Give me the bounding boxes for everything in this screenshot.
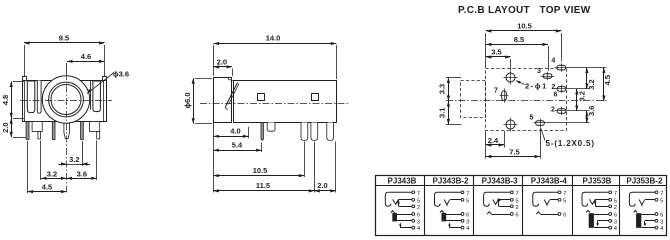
- side pin B: [311, 123, 318, 141]
- svg-text:2: 2: [614, 205, 617, 211]
- extension lines front bottom: [28, 141, 97, 194]
- dimension 4.6: [67, 52, 105, 74]
- svg-text:10.5: 10.5: [517, 22, 532, 31]
- dimension 8.5: [486, 35, 549, 71]
- side pin C: [327, 123, 334, 141]
- side front pin: [261, 123, 263, 141]
- svg-text:2: 2: [551, 107, 555, 114]
- pad 4: [555, 63, 568, 72]
- svg-text:9.5: 9.5: [59, 34, 69, 43]
- front pin 3: [52, 122, 55, 140]
- table frame: [376, 176, 667, 236]
- svg-text:7: 7: [466, 191, 469, 197]
- extension lines side bottom: [214, 123, 336, 193]
- svg-text:5.4: 5.4: [232, 141, 243, 150]
- svg-text:3.2: 3.2: [69, 155, 79, 164]
- svg-text:2.0: 2.0: [217, 58, 227, 67]
- hole phi1 top: [504, 71, 518, 85]
- schematic PJ343B-4: [533, 191, 567, 219]
- dimension 2.0 left: [1, 118, 26, 137]
- svg-text:PJ343B: PJ343B: [388, 177, 417, 186]
- svg-text:3.2: 3.2: [577, 91, 586, 101]
- svg-text:4.5: 4.5: [42, 183, 52, 192]
- svg-text:3: 3: [537, 68, 541, 75]
- svg-text:PJ343B-3: PJ343B-3: [482, 177, 519, 186]
- dimension 10.5 side: [213, 166, 304, 177]
- dimension 2.4: [486, 136, 504, 147]
- svg-text:3.6: 3.6: [587, 106, 596, 116]
- svg-text:P.C.B LAYOUT: P.C.B LAYOUT: [458, 5, 530, 16]
- pad 3: [541, 72, 554, 81]
- dimension 4.5 pcb: [602, 68, 612, 101]
- svg-text:ϕ6.0: ϕ6.0: [183, 92, 192, 108]
- front view left slot: [27, 81, 35, 113]
- dimension 4.0: [213, 127, 248, 138]
- dimension 3.2 / 3.6 row: [41, 170, 97, 180]
- dimension 4.8: [1, 82, 24, 119]
- side view flange: [214, 78, 234, 123]
- schematic PJ343B: [385, 191, 421, 232]
- svg-text:2.4: 2.4: [488, 136, 499, 145]
- side view main body: [234, 81, 337, 123]
- pcb bottom extension lines: [486, 129, 541, 159]
- front view barrel circles: [42, 76, 89, 123]
- schematic PJ353B-2: [629, 191, 664, 232]
- svg-text:PJ353B-2: PJ353B-2: [626, 177, 663, 186]
- front view top-right tab: [103, 77, 107, 81]
- schematic PJ343B-3: [484, 191, 520, 219]
- svg-text:7: 7: [494, 88, 498, 95]
- pcb centerline: [446, 100, 608, 102]
- svg-text:8.5: 8.5: [514, 35, 524, 44]
- svg-text:11.5: 11.5: [256, 181, 270, 190]
- front view right slot: [93, 81, 101, 112]
- svg-text:2: 2: [515, 205, 518, 211]
- svg-text:3.2: 3.2: [47, 170, 57, 179]
- pad 2: [555, 107, 568, 116]
- pad 6: [555, 85, 568, 94]
- mold mark square 2: [312, 94, 319, 101]
- front view right channel line: [90, 81, 92, 110]
- label 2-phi1 with leader: [515, 79, 548, 90]
- side view centerline: [200, 103, 348, 105]
- svg-text:7: 7: [660, 191, 663, 197]
- svg-text:7.5: 7.5: [509, 148, 519, 157]
- schematic PJ353B: [582, 191, 618, 232]
- svg-text:5-(1.2X0.5): 5-(1.2X0.5): [546, 139, 595, 148]
- svg-text:7: 7: [417, 191, 420, 197]
- dimension 10.5 pcb: [486, 22, 562, 68]
- svg-text:14.0: 14.0: [266, 34, 281, 43]
- front view vertical centerline: [66, 73, 68, 193]
- pcb outline dashed rect: [486, 69, 567, 131]
- svg-text:2: 2: [551, 84, 555, 91]
- front pin 2 shoulder: [32, 122, 42, 139]
- svg-text:3.1: 3.1: [438, 108, 447, 118]
- hole phi1 bottom: [504, 118, 518, 132]
- dimension 3.2 top row: [59, 155, 91, 166]
- side pin A: [301, 123, 308, 141]
- svg-text:6: 6: [554, 91, 558, 98]
- svg-text:3.3: 3.3: [438, 84, 447, 94]
- svg-text:7: 7: [614, 191, 617, 197]
- svg-text:2.0: 2.0: [317, 181, 327, 190]
- front pin 6 shoulder: [89, 122, 99, 139]
- front view top-left tab: [23, 77, 27, 81]
- table headers: [388, 177, 663, 186]
- side short pin: [267, 123, 275, 132]
- svg-text:TOP VIEW: TOP VIEW: [540, 5, 591, 16]
- dimension 2.0 right: [314, 181, 335, 193]
- label 5-(1.2X0.5) with leader: [541, 128, 595, 149]
- contact spring: [226, 83, 239, 110]
- svg-text:4.8: 4.8: [1, 95, 10, 105]
- front pin 1 (leftmost): [26, 122, 29, 140]
- pad labels: [494, 58, 558, 122]
- svg-text:7: 7: [563, 191, 566, 197]
- front view horizontal centerline: [20, 100, 112, 102]
- right extension lines pcb: [547, 68, 607, 123]
- dimension phi 6.0: [183, 78, 212, 123]
- svg-text:4.6: 4.6: [81, 52, 91, 61]
- dimension 3.1: [438, 101, 451, 125]
- label phi 3.6 with leader: [85, 70, 129, 96]
- svg-text:5: 5: [530, 115, 534, 122]
- svg-text:3.2: 3.2: [587, 79, 596, 89]
- pad 5: [533, 119, 546, 128]
- dimension 3.5: [486, 48, 511, 70]
- dimension 3.2 inner: [575, 89, 586, 111]
- front view body: [23, 81, 107, 122]
- svg-text:3.5: 3.5: [491, 48, 501, 57]
- dimension 4.5: [28, 183, 67, 194]
- dimension 3.6 pcb: [585, 106, 596, 123]
- svg-text:4.0: 4.0: [230, 127, 240, 136]
- schematic PJ343B-2: [435, 191, 471, 232]
- svg-text:4.5: 4.5: [603, 75, 612, 85]
- dimension 7.5: [486, 148, 540, 158]
- svg-text:2.0: 2.0: [1, 122, 10, 132]
- svg-text:3.6: 3.6: [77, 170, 87, 179]
- mold mark square 1: [258, 94, 265, 101]
- svg-text:7: 7: [515, 191, 518, 197]
- dimension 2.0 flange: [214, 58, 233, 77]
- svg-text:10.5: 10.5: [253, 166, 268, 175]
- svg-text:PJ343B-2: PJ343B-2: [432, 177, 469, 186]
- dimension 11.5: [213, 181, 314, 193]
- svg-text:2-ϕ1: 2-ϕ1: [525, 82, 548, 91]
- front pin 5: [81, 122, 84, 140]
- front center pin: [64, 120, 70, 139]
- dimension 14.0: [214, 34, 337, 80]
- svg-text:4: 4: [551, 58, 555, 65]
- dimension 9.5: [24, 34, 105, 78]
- pcb left protrusion dashed: [461, 81, 486, 118]
- pad 7: [500, 89, 509, 103]
- dimension 3.2 outer: [585, 68, 596, 90]
- svg-text:ϕ3.6: ϕ3.6: [113, 70, 129, 79]
- svg-text:PJ353B: PJ353B: [583, 177, 612, 186]
- svg-text:2: 2: [417, 205, 420, 211]
- dimension 5.4: [213, 141, 261, 152]
- dimension 3.3: [438, 78, 462, 125]
- svg-text:PJ343B-4: PJ343B-4: [531, 177, 568, 186]
- front view left channel: [37, 81, 41, 114]
